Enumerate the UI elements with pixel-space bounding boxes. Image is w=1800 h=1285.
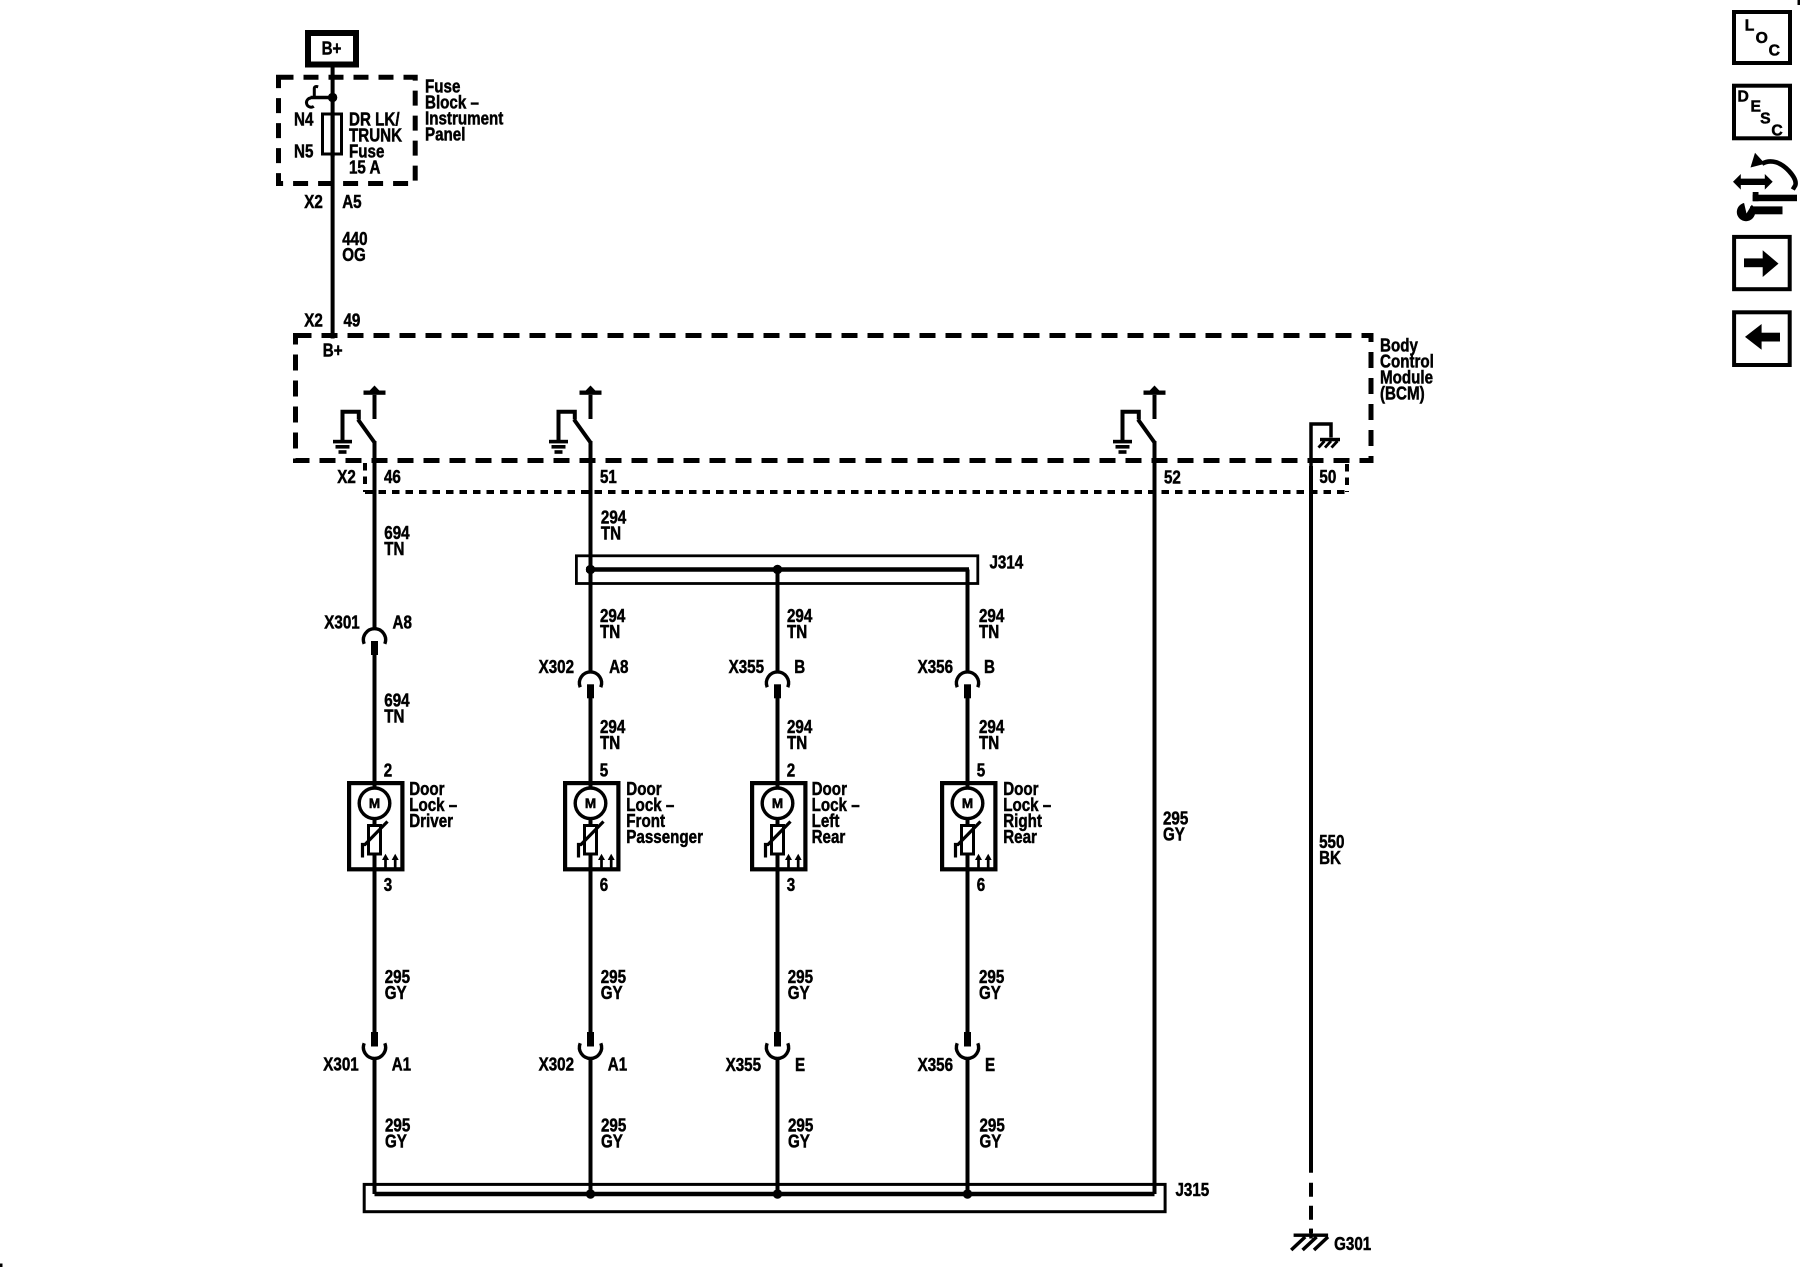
component label Door Lock - Front Passenger bbox=[626, 779, 703, 848]
BCM internal ground symbol bbox=[1113, 440, 1132, 454]
component label Door Lock - Right Rear bbox=[1003, 779, 1051, 848]
X2 connector dotted line bbox=[365, 490, 1347, 494]
svg-text:O: O bbox=[1756, 30, 1768, 47]
in-line connector X356 pin E bbox=[956, 1032, 978, 1058]
svg-text:TN: TN bbox=[601, 523, 621, 544]
wire 295 GY from X356 E to J315 bbox=[966, 1060, 970, 1195]
wire 294 TN from X302 A8 to front passenger lock bbox=[589, 698, 593, 782]
sidebar icon: next-page right arrow box bbox=[1734, 237, 1790, 289]
svg-text:A1: A1 bbox=[392, 1054, 411, 1075]
wire label 294 TN bbox=[979, 717, 1005, 754]
svg-text:3: 3 bbox=[384, 875, 392, 896]
svg-text:GY: GY bbox=[385, 1131, 407, 1152]
wire label 440 OG bbox=[342, 229, 367, 266]
BCM internal ground hook at pin 50 bbox=[1311, 424, 1331, 466]
in-line connector X356 pin B bbox=[956, 672, 978, 698]
X2 connector dotted separator (left) bbox=[363, 463, 367, 492]
junction J314 at 294 TN (pin 51 feed) bbox=[586, 565, 595, 574]
wire label 294 TN bbox=[601, 507, 627, 544]
ground G301 chassis ground symbol bbox=[1291, 1229, 1328, 1250]
svg-text:Panel: Panel bbox=[425, 124, 465, 145]
wire label 295 GY bbox=[1163, 808, 1188, 845]
svg-text:N5: N5 bbox=[294, 141, 313, 162]
BCM internal ground symbol bbox=[549, 440, 568, 454]
wire 694 TN from X301 A8 to driver door lock bbox=[373, 655, 377, 782]
fuse name label bbox=[349, 109, 403, 178]
svg-text:X356: X356 bbox=[918, 657, 953, 678]
wire 295 GY from driver lock pin 3 bbox=[373, 871, 377, 1033]
junction J315 (left rear return) bbox=[773, 1189, 782, 1198]
wire 440 OG from fuse to BCM X2-49 bbox=[331, 114, 335, 339]
BCM internal ground symbol bbox=[333, 440, 352, 454]
svg-text:GY: GY bbox=[979, 983, 1001, 1004]
svg-text:50: 50 bbox=[1319, 467, 1336, 488]
wire 550 BK off-page dashed section bbox=[1309, 1183, 1313, 1233]
in-line connector X301 pin A1 bbox=[363, 1032, 385, 1058]
svg-text:TN: TN bbox=[384, 706, 404, 727]
svg-text:X301: X301 bbox=[323, 1054, 358, 1075]
svg-text:D: D bbox=[1738, 88, 1749, 105]
svg-text:A5: A5 bbox=[342, 192, 361, 213]
svg-text:TN: TN bbox=[787, 622, 807, 643]
svg-text:5: 5 bbox=[600, 760, 608, 781]
svg-text:B: B bbox=[984, 657, 995, 678]
svg-text:X302: X302 bbox=[539, 1054, 574, 1075]
in-line connector X302 pin A1 bbox=[579, 1032, 601, 1058]
wire label 295 GY bbox=[601, 1115, 626, 1152]
wire 294 TN from J314 right end to X356 B bbox=[966, 570, 970, 672]
wire label 295 GY bbox=[385, 1115, 410, 1152]
svg-text:B+: B+ bbox=[322, 38, 342, 59]
fuse block name label bbox=[425, 76, 504, 145]
wire label 295 GY bbox=[788, 967, 813, 1004]
door lock motor - front passenger bbox=[565, 781, 618, 871]
wire label 295 GY bbox=[979, 967, 1004, 1004]
sidebar icon: jump-to / tools squiggle bbox=[1733, 153, 1797, 221]
J315 internal bus bar bbox=[375, 1192, 1155, 1197]
in-line connector X301 pin A8 bbox=[363, 629, 385, 655]
svg-text:N4: N4 bbox=[294, 109, 314, 130]
svg-text:B: B bbox=[794, 657, 805, 678]
wire label 550 BK bbox=[1319, 832, 1344, 869]
X2 connector dotted separator (right) bbox=[1345, 464, 1349, 492]
sidebar icon: DESC box bbox=[1734, 86, 1790, 140]
svg-text:C: C bbox=[1769, 42, 1780, 59]
BCM door lock output driver switch (pin 46) bbox=[343, 386, 386, 443]
component label Door Lock - Left Rear bbox=[812, 779, 860, 848]
fuse block - instrument panel (dashed box) bbox=[279, 77, 416, 183]
svg-text:OG: OG bbox=[342, 245, 366, 266]
svg-text:S: S bbox=[1760, 110, 1770, 127]
svg-text:A1: A1 bbox=[608, 1054, 627, 1075]
door lock motor - right rear bbox=[942, 781, 995, 871]
in-line connector X302 pin A8 bbox=[579, 672, 601, 698]
page edge artifact marks bbox=[0, 1264, 3, 1268]
svg-text:A8: A8 bbox=[393, 612, 412, 633]
fuse block terminal clip symbol bbox=[306, 87, 332, 108]
wire 295 GY from BCM 52 to J315 bbox=[1153, 441, 1157, 1194]
BCM door lock output driver switch (pin 52) bbox=[1123, 386, 1166, 443]
svg-text:E: E bbox=[985, 1055, 995, 1076]
wire 694 TN from BCM 46 to X301 A8 bbox=[373, 441, 377, 629]
svg-text:GY: GY bbox=[788, 983, 810, 1004]
wire label 694 TN bbox=[384, 690, 410, 727]
Body Control Module (BCM) dashed outline bbox=[296, 336, 1372, 461]
svg-text:X355: X355 bbox=[726, 1055, 761, 1076]
svg-text:TN: TN bbox=[979, 733, 999, 754]
fuse cavity label N4 bbox=[294, 109, 314, 130]
wire label 295 GY bbox=[601, 967, 626, 1004]
svg-text:Rear: Rear bbox=[1003, 827, 1037, 848]
in-line connector X355 pin B bbox=[766, 672, 788, 698]
svg-text:5: 5 bbox=[977, 760, 985, 781]
wire label 294 TN bbox=[787, 606, 813, 643]
svg-text:Passenger: Passenger bbox=[626, 827, 703, 848]
svg-text:TN: TN bbox=[600, 622, 620, 643]
svg-text:X2: X2 bbox=[337, 467, 356, 488]
svg-text:GY: GY bbox=[601, 1131, 623, 1152]
J314 internal bus bar bbox=[586, 567, 969, 572]
junction J315 (right rear return) bbox=[963, 1189, 972, 1198]
svg-text:B+: B+ bbox=[323, 340, 343, 361]
svg-text:6: 6 bbox=[977, 875, 985, 896]
svg-text:TN: TN bbox=[600, 733, 620, 754]
svg-text:C: C bbox=[1771, 122, 1782, 139]
wire 550 BK from BCM 50 toward G301 bbox=[1309, 466, 1313, 1173]
junction at fuse block terminal bbox=[328, 93, 337, 102]
component label Door Lock - Driver bbox=[409, 779, 457, 832]
door lock motor - left rear bbox=[752, 781, 805, 871]
wire label 294 TN bbox=[600, 717, 626, 754]
svg-text:GY: GY bbox=[601, 983, 623, 1004]
wire 295 GY from X301 A1 to J315 bbox=[373, 1060, 377, 1195]
svg-text:46: 46 bbox=[384, 467, 401, 488]
svg-text:E: E bbox=[795, 1055, 805, 1076]
wire label 295 GY bbox=[385, 967, 410, 1004]
svg-text:3: 3 bbox=[787, 875, 795, 896]
svg-text:51: 51 bbox=[600, 467, 617, 488]
splice pack J314 outline bbox=[576, 556, 977, 584]
svg-text:G301: G301 bbox=[1334, 1234, 1371, 1255]
wire label 694 TN bbox=[384, 523, 410, 560]
sidebar icon: previous-page left arrow box bbox=[1734, 312, 1790, 365]
door lock motor - driver bbox=[349, 781, 402, 871]
BCM name label bbox=[1380, 335, 1434, 404]
svg-text:J315: J315 bbox=[1176, 1180, 1210, 1201]
wire from B+ through DR LK/TRUNK fuse bbox=[331, 67, 335, 157]
svg-text:L: L bbox=[1745, 18, 1755, 35]
fuse DR LK/TRUNK 15A element bbox=[323, 114, 342, 154]
svg-text:GY: GY bbox=[788, 1131, 810, 1152]
svg-text:X302: X302 bbox=[539, 657, 574, 678]
svg-text:Rear: Rear bbox=[812, 827, 846, 848]
wire label 294 TN bbox=[600, 606, 626, 643]
wire label 294 TN bbox=[979, 606, 1005, 643]
wire 295 GY from X355 E to J315 bbox=[776, 1060, 780, 1195]
svg-text:BK: BK bbox=[1319, 848, 1342, 869]
svg-text:TN: TN bbox=[384, 539, 404, 560]
splice pack J315 outline bbox=[364, 1184, 1165, 1211]
svg-text:TN: TN bbox=[787, 733, 807, 754]
svg-text:(BCM): (BCM) bbox=[1380, 383, 1425, 404]
fuse cavity label N5 bbox=[294, 141, 313, 162]
wire 294 TN from BCM 51 through J314 bbox=[589, 441, 593, 672]
wire 294 TN from J314 to X355 B bbox=[776, 570, 780, 672]
wire 295 GY from left rear lock pin 3 bbox=[776, 871, 780, 1033]
junction J315 (front passenger return) bbox=[586, 1189, 595, 1198]
svg-text:A8: A8 bbox=[609, 657, 628, 678]
svg-text:GY: GY bbox=[980, 1131, 1002, 1152]
svg-text:GY: GY bbox=[1163, 824, 1185, 845]
svg-text:52: 52 bbox=[1164, 467, 1181, 488]
svg-text:Driver: Driver bbox=[409, 811, 453, 832]
svg-text:J314: J314 bbox=[990, 552, 1024, 573]
svg-text:X301: X301 bbox=[324, 612, 359, 633]
svg-text:X356: X356 bbox=[918, 1055, 953, 1076]
svg-text:GY: GY bbox=[385, 983, 407, 1004]
wire 294 TN from X356 B to right rear lock bbox=[966, 698, 970, 782]
svg-text:X2: X2 bbox=[304, 192, 323, 213]
svg-text:49: 49 bbox=[344, 310, 361, 331]
wire 294 TN from X355 B to left rear lock bbox=[776, 698, 780, 782]
in-line connector X355 pin E bbox=[766, 1032, 788, 1058]
sidebar icon: LOC box bbox=[1734, 12, 1790, 63]
BCM internal chassis ground symbol (pin 50) bbox=[1319, 438, 1341, 448]
svg-text:6: 6 bbox=[600, 875, 608, 896]
wire label 295 GY bbox=[788, 1115, 813, 1152]
svg-text:2: 2 bbox=[384, 760, 392, 781]
BCM door lock output driver switch (pin 51) bbox=[559, 386, 602, 443]
wire 295 GY from front passenger lock pin 6 bbox=[589, 871, 593, 1033]
svg-text:15 A: 15 A bbox=[349, 157, 380, 178]
wire label 294 TN bbox=[787, 717, 813, 754]
wire label 295 GY bbox=[980, 1115, 1005, 1152]
junction J314 to left rear lock bbox=[773, 565, 782, 574]
svg-text:TN: TN bbox=[979, 622, 999, 643]
wire 295 GY from right rear lock pin 6 bbox=[966, 871, 970, 1033]
svg-text:X2: X2 bbox=[304, 310, 323, 331]
battery positive voltage B+ terminal box bbox=[308, 33, 356, 65]
svg-text:X355: X355 bbox=[729, 657, 764, 678]
wire 295 GY from X302 A1 to J315 bbox=[589, 1060, 593, 1195]
svg-text:2: 2 bbox=[787, 760, 795, 781]
